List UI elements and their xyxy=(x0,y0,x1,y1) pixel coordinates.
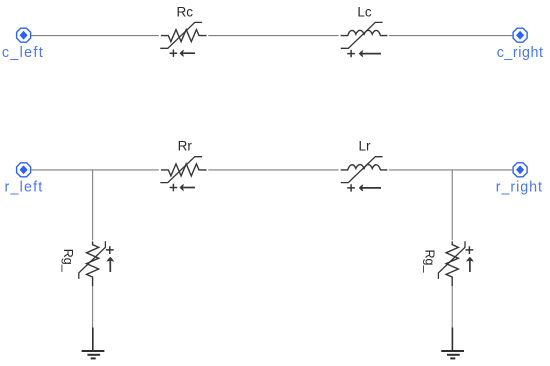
svg-text:Rg_: Rg_ xyxy=(423,250,437,274)
resistor Rg_ right xyxy=(438,241,473,286)
svg-text:Lr: Lr xyxy=(358,139,371,154)
label Lc xyxy=(357,4,372,19)
wire r_left to Rr xyxy=(31,169,159,171)
port r_left xyxy=(5,163,44,196)
wire Lr to r_right xyxy=(389,169,513,171)
resistor Rr xyxy=(160,157,206,192)
svg-text:c_left: c_left xyxy=(2,45,44,61)
svg-text:Lc: Lc xyxy=(357,4,372,19)
svg-text:r_right: r_right xyxy=(496,180,543,196)
svg-text:Rc: Rc xyxy=(177,4,194,19)
port r_right xyxy=(496,163,543,196)
label Rg_ left xyxy=(61,249,75,273)
svg-text:c_right: c_right xyxy=(497,45,544,61)
wire junction left branch xyxy=(92,170,94,240)
port c_right xyxy=(497,28,544,61)
label Rr xyxy=(178,139,193,154)
wire junction right branch xyxy=(451,170,453,240)
label Rc xyxy=(177,4,194,19)
resistor Rc xyxy=(160,22,206,57)
wire Rg_ right to ground xyxy=(451,286,453,327)
label Lr xyxy=(358,139,371,154)
wire Rr to Lr xyxy=(208,169,338,171)
svg-text:Rg_: Rg_ xyxy=(61,249,75,273)
ground right xyxy=(441,328,464,359)
label Rg_ right xyxy=(423,250,437,274)
ground left xyxy=(82,328,105,359)
port c_left xyxy=(2,28,44,61)
resistor Rg_ left xyxy=(79,241,114,286)
inductor Lc xyxy=(341,22,388,57)
inductor Lr xyxy=(341,157,388,192)
svg-text:r_left: r_left xyxy=(5,180,44,196)
wire Rg_ left to ground xyxy=(92,286,94,327)
wire Rc to Lc xyxy=(208,35,338,37)
wire c_left to Rc xyxy=(31,35,159,37)
svg-text:Rr: Rr xyxy=(178,139,193,154)
wire Lc to c_right xyxy=(389,35,513,37)
